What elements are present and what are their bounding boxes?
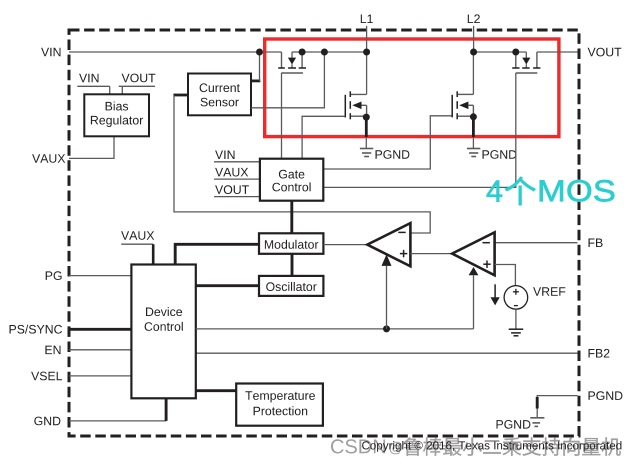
wire VIN flag underline [214, 161, 260, 163]
wire VREF to ground [515, 309, 517, 329]
wire VOUT rail [474, 51, 578, 53]
wire PGND pin run [537, 396, 577, 418]
block U-bias Bias Regulator [84, 94, 149, 136]
wire modulator to device control (thick) [175, 244, 259, 264]
wire Q3 source to PGND (thin) [472, 137, 474, 149]
op-amp U1 (PWM comparator) [367, 223, 410, 266]
wire Q3 gate to gate control [323, 116, 451, 169]
node Q3 source dot [470, 113, 477, 120]
wire L1 pin to VIN rail [366, 26, 368, 52]
pin VSEL label [31, 372, 62, 381]
wire current sensor sense tap [251, 52, 324, 108]
wire ramp to comparator U2 arrow [469, 267, 479, 329]
source VREF (voltage reference) [504, 286, 528, 310]
pin GND label [34, 417, 60, 426]
pin PS/SYNC label [10, 325, 63, 334]
node Q2 source dot [363, 114, 370, 121]
wire ramp to comparator U1 arrow [382, 254, 392, 329]
wire Q2 gate to gate control [302, 116, 345, 158]
node Q1 source dot [299, 49, 306, 56]
wire FB pin to comparator U2 [495, 242, 578, 244]
wire GND pin run [69, 420, 166, 422]
wire FB2 pin to device control [196, 352, 578, 354]
transistor Q4 (output switch, right) [512, 52, 540, 73]
wire Q3 drain to L2 node [472, 52, 474, 94]
wire current sensor output run [174, 95, 430, 233]
pin PGND label (right) [589, 391, 623, 400]
wire Q2 source to PGND (thick) [365, 118, 368, 137]
wire Q2 source to PGND (thin) [365, 137, 367, 149]
wire current sensor supply stub (thick) [251, 80, 260, 83]
wire VAUX pin to bias regulator [69, 136, 114, 158]
transistor Q3 (rectifier switch, right) [452, 91, 473, 119]
wire PG pin to device control [69, 275, 131, 277]
label VOUT (gate control input flag) [215, 185, 249, 194]
copyright line [362, 441, 621, 452]
wire device control to temperature protection (thick) [196, 389, 236, 392]
node L1 junction dot [363, 49, 370, 56]
pin L1 label [361, 15, 373, 24]
block U-cs Current Sensor [188, 74, 251, 116]
ground VREF ground [509, 329, 524, 336]
node VIN tap dot [256, 49, 263, 56]
pin VAUX label [32, 154, 65, 163]
node Q4 drain dot [512, 49, 519, 56]
block U-dc Device Control [131, 265, 195, 399]
wire EN pin to device control [69, 349, 131, 351]
wire VIN tap to current sensor [259, 52, 261, 81]
node sense tap dot [321, 49, 328, 56]
wire L2 pin to VOUT rail [473, 26, 475, 52]
pin VIN label [41, 48, 60, 57]
wire VAUX flag underline [214, 178, 260, 180]
wire Q3 source to PGND (thick) [472, 118, 475, 137]
wire VOUT flag underline [119, 86, 155, 94]
wire modulator to comparator U1 [323, 244, 367, 246]
wire oscillator to device control (thick) [196, 284, 259, 287]
transistor Q1 (high-side switch, left) [278, 52, 306, 73]
wire current sensor output (thick elbow) [173, 94, 188, 97]
wire VIN rail [69, 51, 367, 53]
wire VREF current arrow [491, 284, 500, 305]
wire VOUT flag underline [214, 196, 260, 198]
wire Q4 gate to gate control [323, 73, 516, 187]
ground PGND (right power ground) [467, 149, 480, 157]
wire Q1 gate to gate control [281, 73, 283, 159]
label VAUX (gate control input flag) [215, 168, 248, 177]
node ramp branch dot [383, 325, 390, 332]
wire Q2 drain to L1 node [366, 52, 368, 94]
ground PGND (bottom right) [530, 418, 544, 427]
red highlight box around power-stage MOSFETs [265, 39, 559, 137]
op-amp U2 (error amplifier) [452, 232, 495, 275]
pin EN label [45, 346, 60, 355]
wire VSEL pin to device control [69, 375, 131, 377]
label VIN (gate control input flag) [215, 151, 234, 160]
chip boundary (dashed block border) [69, 30, 579, 436]
wire PGND stub (thick) [536, 397, 539, 409]
wire PS/SYNC pin to device control [69, 328, 131, 331]
label VIN (bias regulator input flag) [79, 74, 98, 83]
transistor Q2 (rectifier switch, left) [345, 91, 366, 119]
block U-tp Temperature Protection [236, 384, 323, 426]
node L2 junction dot [470, 49, 477, 56]
pin FB2 label [589, 349, 610, 358]
block U-gc Gate Control [260, 159, 323, 201]
pin PG label [46, 271, 62, 280]
label PGND (left) [376, 150, 410, 159]
label PGND (right) [483, 150, 517, 159]
label VOUT (bias regulator input flag) [122, 74, 156, 83]
wire VAUX flag underline [121, 244, 153, 264]
block U-mod Modulator [259, 233, 323, 254]
pin L2 label [468, 14, 480, 23]
wire modulator to oscillator (thick) [291, 254, 294, 276]
pin VOUT label [588, 48, 622, 57]
label PGND (inner bottom right) [497, 420, 531, 429]
wire U1 plus input to U2 output [410, 253, 452, 255]
watermark CSDN (gray) [331, 437, 621, 456]
wire VIN flag underline [77, 86, 109, 94]
label VREF [533, 287, 565, 296]
block U-osc Oscillator [259, 276, 323, 296]
wire gate control to modulator (thick) [290, 201, 293, 234]
wire GND riser to device control [165, 397, 168, 421]
label VAUX (device control input flag) [121, 231, 154, 240]
annotation 4-MOS (cyan) [487, 177, 615, 205]
wire ramp feedback run [196, 328, 474, 330]
wire U2 plus input to VREF [495, 265, 516, 287]
ground PGND (left power ground) [360, 149, 373, 157]
pin FB label [589, 239, 603, 248]
